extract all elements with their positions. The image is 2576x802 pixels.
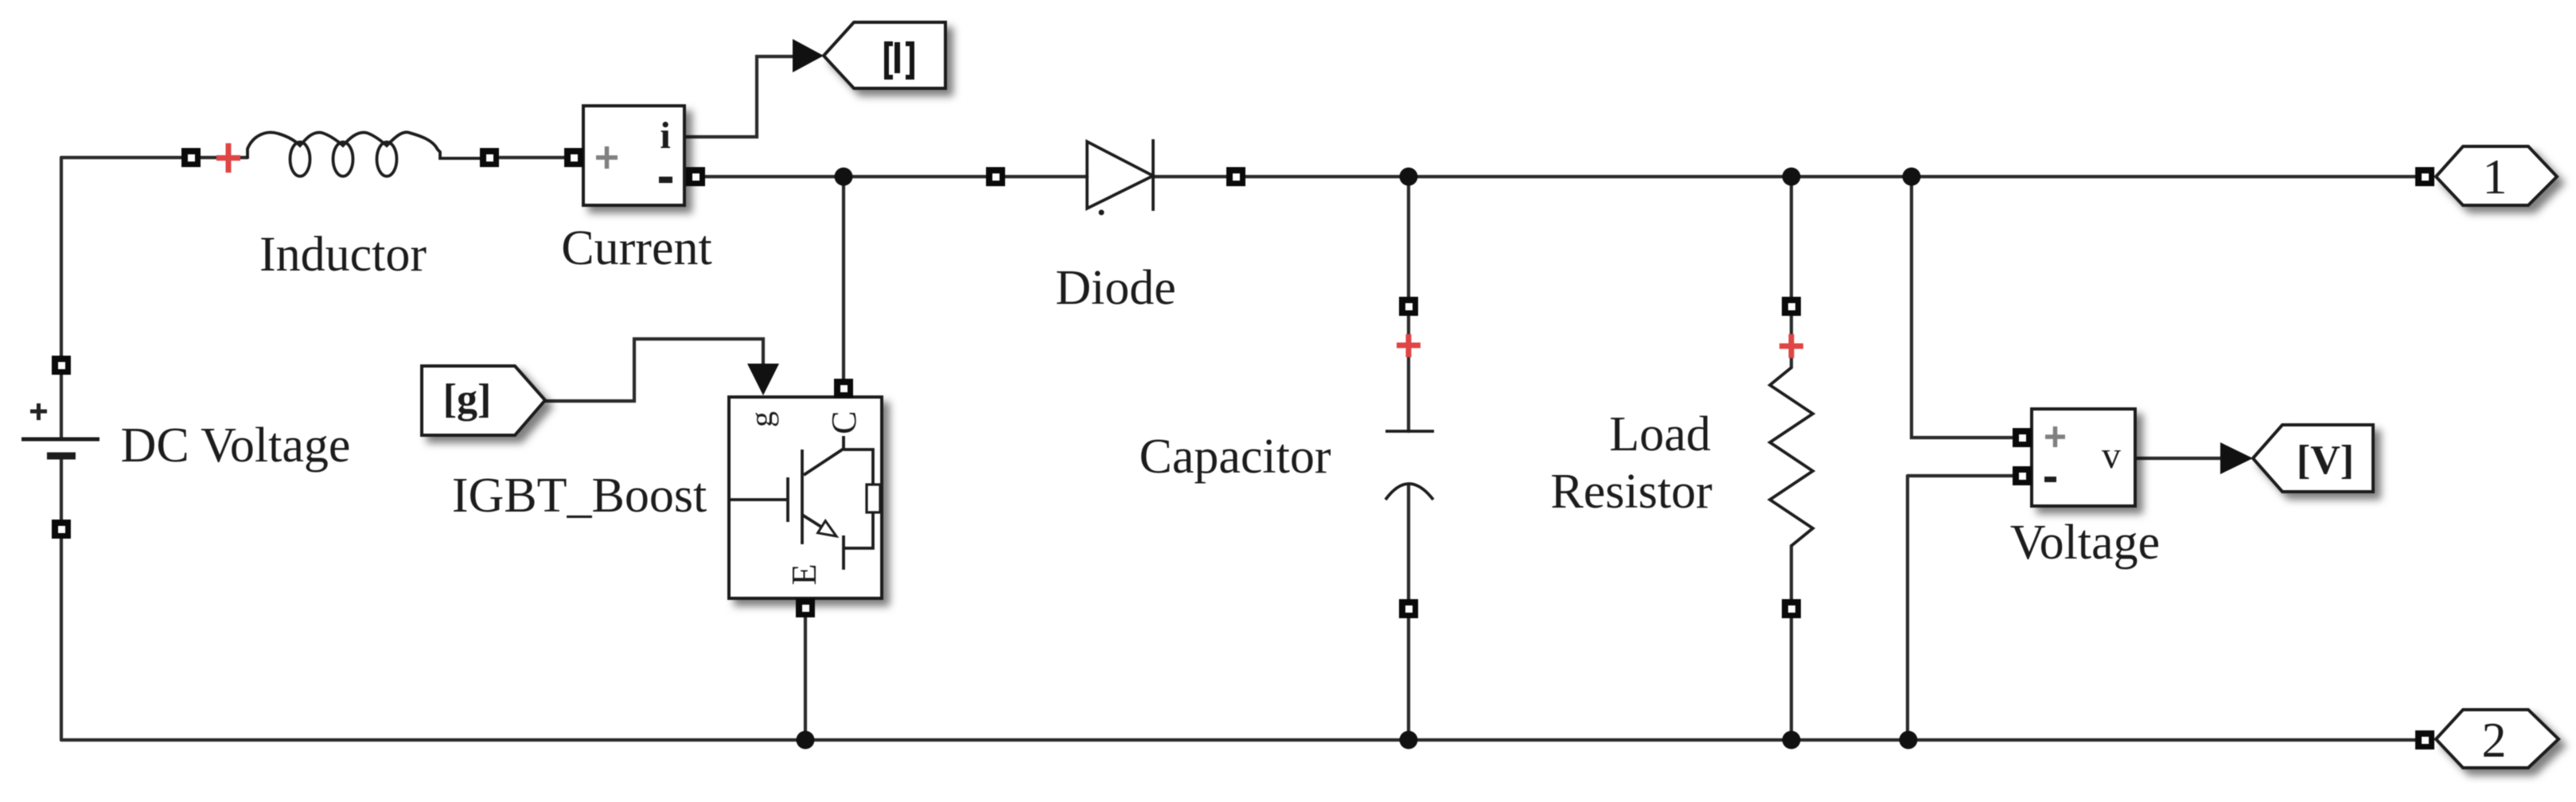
load resistor R1 zigzag [1770,368,1813,546]
port square IGBT emitter pin [796,598,815,617]
port square current plus pin [564,148,583,167]
svg-text:[g]: [g] [443,376,492,422]
wire Current i output to [I] tag [684,56,795,137]
port square capacitor top pin [1399,297,1418,316]
wire IGBT collector riser [842,177,845,380]
svg-text:Inductor: Inductor [259,228,427,282]
svg-text:Current: Current [561,221,711,275]
svg-text:Load: Load [1609,407,1710,461]
wire voltage plus riser [1912,177,2013,438]
port square diode cathode pin [1226,167,1245,186]
svg-text:Voltage: Voltage [2010,516,2160,570]
wire inductor right lead to Current block [500,156,564,159]
inductor L1 coil [247,132,480,176]
wire inductor left lead [201,156,247,159]
junction node F (capacitor bottom) [1400,731,1418,749]
DC voltage source V1 battery symbol [21,403,99,456]
arrowhead into [I] tag [793,39,824,72]
junction node C (load resistor top) [1783,168,1801,186]
svg-text:[V]: [V] [2297,438,2354,483]
svg-text:Resistor: Resistor [1550,465,1713,519]
port square capacitor bottom pin [1399,599,1418,618]
svg-text:v: v [2102,434,2121,477]
goto tag [I] [824,22,945,88]
port square load resistor top pin [1782,297,1801,316]
wire [g] tag to IGBT gate [545,339,763,401]
arrowhead into IGBT gate [747,364,779,395]
output port 2 hexagon [2436,710,2558,768]
wire Voltage v output to [V] tag [2135,457,2223,460]
port square diode anode pin [986,167,1005,186]
port square load resistor bottom pin [1782,599,1801,618]
wire output rail to port 1 [1245,175,2415,178]
svg-text:g: g [743,411,779,427]
wire diode cathode lead [1153,175,1227,178]
wire diode anode lead [1004,175,1087,178]
svg-text:i: i [660,115,670,157]
svg-text:C: C [824,411,863,434]
port square inductor left pin [181,148,201,167]
polarity mark + (load resistor, red) [1779,334,1803,358]
junction node B (capacitor top) [1400,168,1418,186]
from tag [g] [422,366,545,435]
arrowhead into [V] tag [2220,442,2253,474]
wire left vertical (battery column top) [60,158,63,356]
junction node A (IGBT collector / current output) [835,168,853,186]
wire load resistor branch lower [1790,546,1793,740]
wire voltage minus riser [1908,476,2013,740]
wire capacitor branch upper [1407,177,1410,431]
voltage measurement block U2 [2032,409,2135,506]
polarity mark + (capacitor, red) [1397,334,1421,357]
svg-text:IGBT_Boost: IGBT_Boost [452,469,707,523]
diode D1 [1087,139,1153,216]
IGBT_Boost block Q1 [729,397,882,598]
IGBT internal symbol [729,498,788,501]
junction node D (voltage plus tap) [1903,168,1921,186]
junction node G (load resistor bottom) [1783,731,1801,749]
port square outport 2 pin [2415,730,2434,749]
svg-text:Diode: Diode [1055,261,1176,315]
wire bottom rail [61,738,2415,742]
port square current minus pin [686,167,705,186]
port square voltage plus pin [2013,428,2032,447]
polarity mark + (inductor left, red) [216,143,240,173]
wire Current minus output rail [704,175,987,178]
wire battery to bottom [60,375,63,740]
port square IGBT collector pin [834,379,853,398]
junction node E (IGBT emitter bottom) [797,731,815,749]
port square battery bottom pin [52,520,71,539]
svg-text:E: E [785,564,824,586]
svg-text:2: 2 [2482,714,2507,768]
goto tag [V] [2253,425,2373,492]
port square outport 1 pin [2415,167,2434,186]
svg-text:DC Voltage: DC Voltage [121,419,351,473]
wire IGBT emitter to bottom rail [804,617,807,740]
svg-text:1: 1 [2483,150,2508,204]
capacitor C1 [1385,431,1434,500]
port square battery top pin [52,356,71,375]
output port 1 hexagon [2436,146,2557,205]
wire capacitor branch lower [1407,485,1410,740]
wire load resistor branch upper [1790,177,1793,368]
port square inductor right pin [480,148,499,167]
current measurement block U1 [583,106,684,205]
junction node H (voltage minus tap) [1900,731,1918,749]
port square voltage minus pin [2013,466,2032,485]
svg-text:Capacitor: Capacitor [1139,430,1331,484]
wire top-left rail to inductor [61,156,181,159]
